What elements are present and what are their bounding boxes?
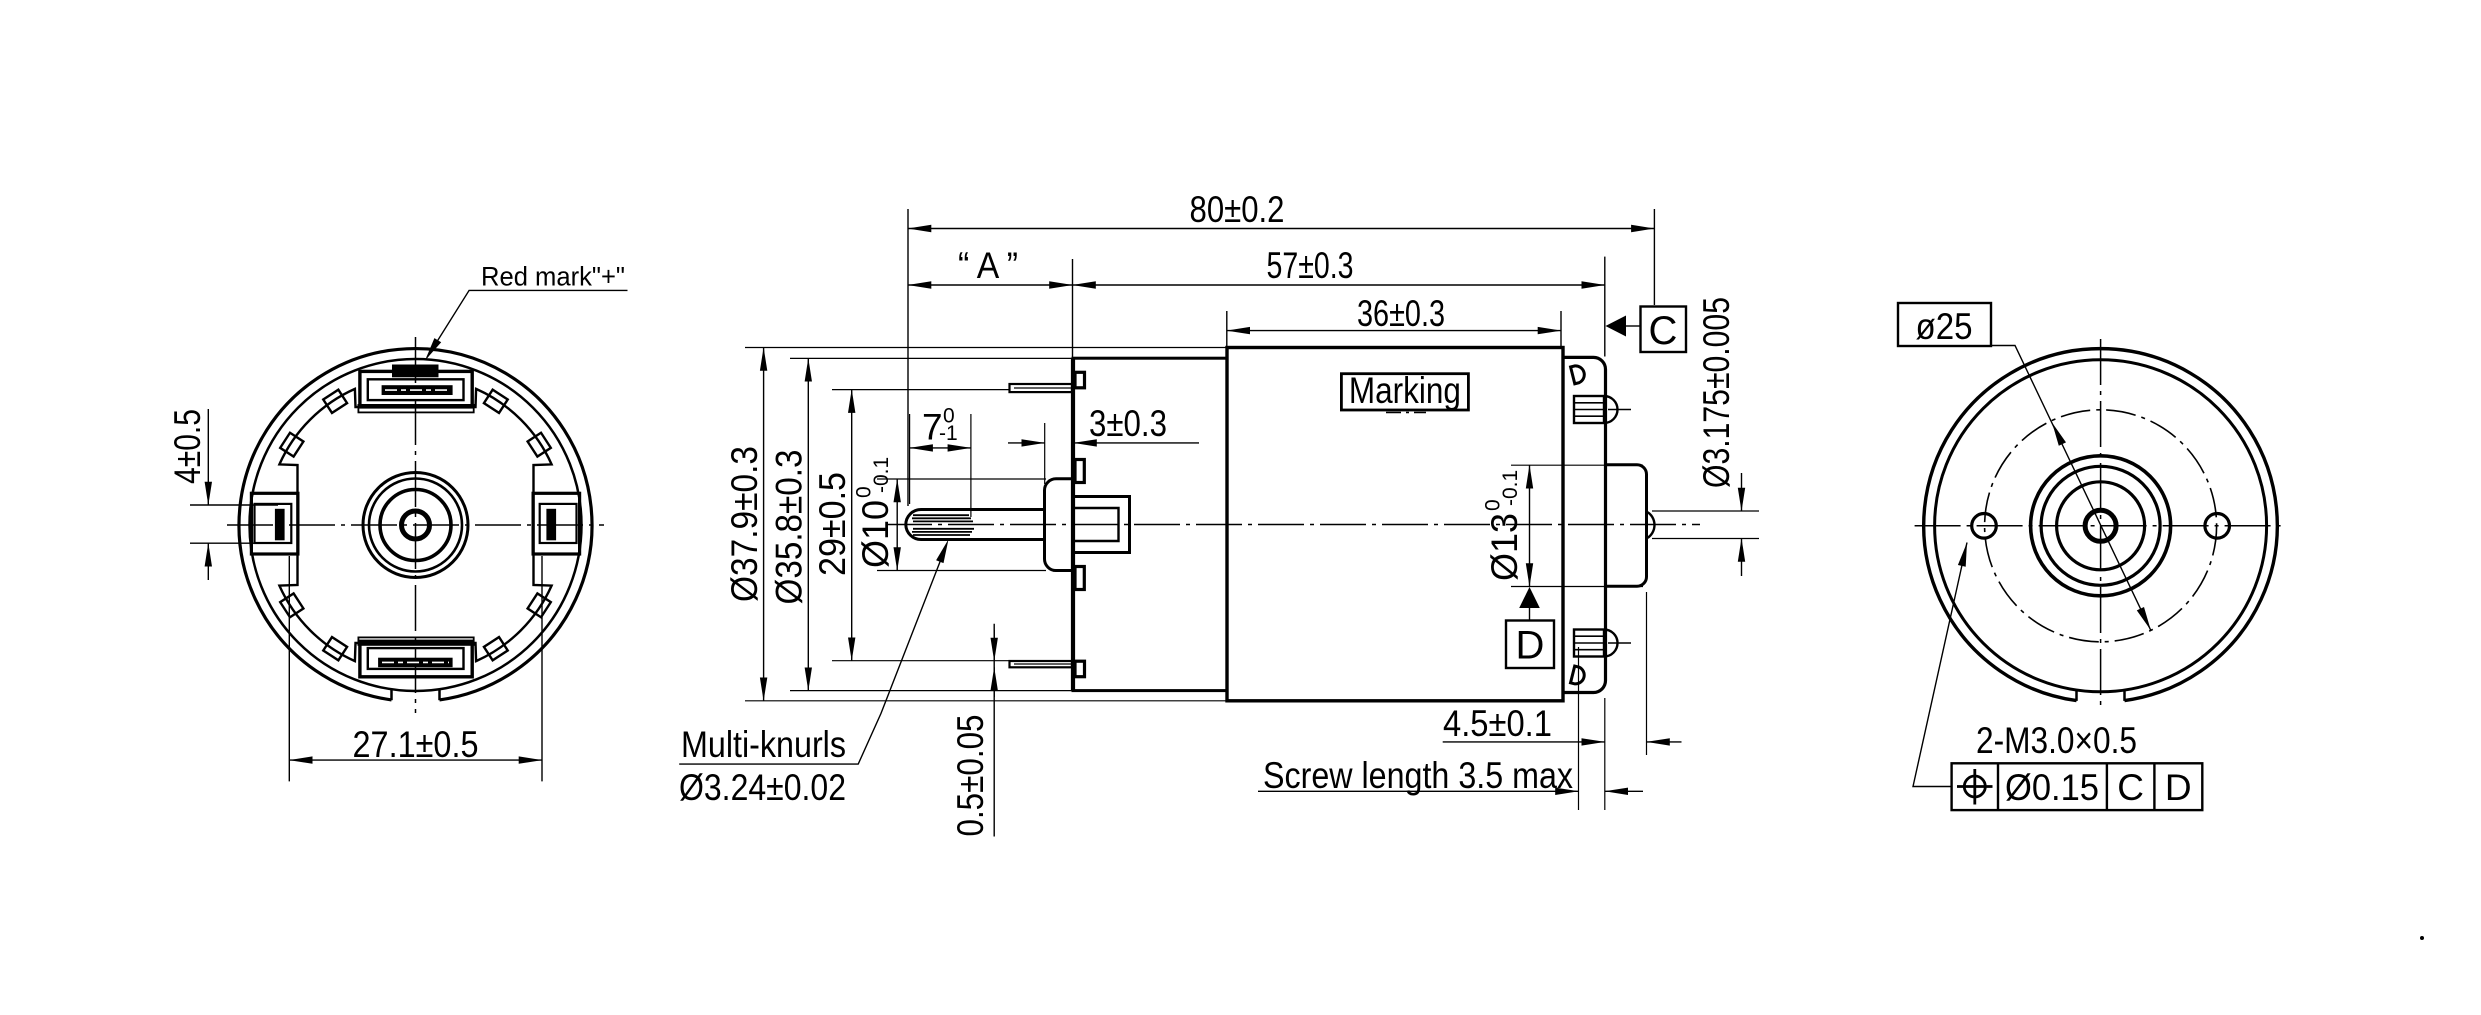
dim A / 57 ext lines — [1072, 259, 1074, 357]
rim ear 213deg — [280, 593, 303, 617]
Ø25 upper arrowhead — [2052, 423, 2066, 446]
top connector outer — [360, 371, 472, 407]
datum D stem — [1529, 608, 1531, 620]
dim 3±0.3 ext line — [1044, 423, 1046, 484]
rim ear 327deg — [528, 593, 551, 617]
screw bottom head — [1604, 630, 1618, 657]
screw hole right M3 — [2205, 514, 2230, 539]
dim 7 ext lines — [909, 414, 911, 504]
rim gap step right — [438, 689, 441, 700]
multi-knurls arrowhead — [936, 539, 948, 563]
rim gap step right — [2123, 690, 2126, 701]
end bell vent bottom — [1571, 666, 1587, 686]
center shaft hole — [402, 511, 430, 539]
dim Ø13 ext lines — [1511, 464, 1643, 466]
dim 36±0.3 line — [1227, 330, 1561, 332]
rear shaft stub — [1647, 512, 1655, 539]
screw bottom body — [1574, 630, 1604, 657]
centerline — [886, 524, 1700, 526]
dim Ø37.9 line — [763, 348, 765, 701]
dim Ø3.175 ext lines — [1652, 510, 1759, 512]
dim A line — [908, 284, 1073, 286]
output boss circle 3 — [2057, 482, 2145, 570]
bottom connector outer — [360, 641, 472, 677]
bearing boss — [1045, 479, 1074, 571]
top connector inner — [368, 379, 464, 400]
plate tab upper middle — [1075, 460, 1084, 483]
marking centerline tick — [1386, 412, 1426, 414]
bolt circle Ø25 dash-dot — [1985, 410, 2217, 642]
gear bracket inner — [1073, 508, 1119, 541]
svg-text:Multi-knurls: Multi-knurls — [681, 724, 846, 765]
end bell vent top — [1571, 364, 1587, 384]
rim ear 237deg — [323, 637, 347, 660]
centerline horizontal — [1915, 525, 2286, 527]
plate tab bottom — [1075, 661, 1085, 677]
dim 36±0.3 ext lines — [1226, 311, 1228, 347]
dim Ø35.8 line — [807, 358, 809, 690]
rim ear 33deg — [528, 433, 551, 457]
left terminal outer — [251, 493, 298, 554]
fcf leader arrowhead — [1958, 543, 1967, 567]
rim gap step left — [2075, 690, 2078, 701]
dim Ø10 line — [896, 479, 898, 571]
rim gap step left — [390, 689, 393, 700]
gearbox face plate edge — [1071, 358, 1075, 690]
svg-text:Ø0.15: Ø0.15 — [2005, 767, 2099, 808]
position symbol — [1964, 776, 1985, 797]
svg-text:Ø10: Ø10 — [855, 500, 896, 568]
svg-text:D: D — [2165, 767, 2192, 808]
screw length dim line and arrows — [1258, 790, 1579, 792]
svg-text:Ø37.9±0.3: Ø37.9±0.3 — [724, 446, 765, 602]
end cap inner rim circle — [250, 359, 582, 691]
marking box — [1341, 374, 1468, 410]
dim Ø3.175 arrows — [1741, 473, 1743, 511]
multi-knurls underline and leader — [679, 551, 944, 764]
Ø25 lower arrowhead — [2137, 607, 2151, 630]
rim ear 57deg — [484, 390, 508, 413]
screw top body — [1574, 396, 1604, 423]
dim Ø37.9 ext lines — [745, 347, 1227, 349]
dim 0.5±0.05 arrows — [993, 630, 995, 661]
face outer circle (with bottom gap) — [1924, 349, 2278, 701]
dim Ø35.8 ext lines — [790, 357, 1073, 359]
right terminal slot — [546, 509, 556, 541]
screw top head — [1604, 396, 1618, 423]
center bearing boss circle 1 — [363, 473, 468, 578]
svg-text:4.5±0.1: 4.5±0.1 — [1443, 703, 1552, 744]
brush card outline — [279, 389, 551, 661]
dimension 4±0.5 arrows — [207, 409, 209, 505]
top connector slot dash — [385, 389, 449, 391]
rim ear 147deg — [280, 433, 303, 457]
left terminal slot — [275, 509, 285, 541]
motor can body — [1227, 348, 1563, 701]
rim ear 123deg — [323, 390, 347, 413]
dim 80±0.2 line — [908, 228, 1654, 230]
bottom connector slot — [378, 658, 453, 668]
svg-text:29±0.5: 29±0.5 — [812, 472, 853, 576]
dim 0.5±0.05 line — [993, 624, 995, 837]
rim ear 303deg — [484, 637, 508, 660]
top connector flange — [358, 405, 473, 413]
feature control frame box — [1952, 763, 2203, 810]
svg-text:-0.1: -0.1 — [1499, 470, 1522, 506]
top connector slot — [382, 385, 453, 395]
center bearing boss circle 3 — [380, 490, 451, 561]
knurl lines lower — [913, 528, 974, 530]
svg-text:-0.1: -0.1 — [870, 457, 893, 493]
svg-text:0.5±0.05: 0.5±0.05 — [950, 715, 991, 837]
dim 80±0.2 ext lines — [907, 209, 909, 506]
datum C box — [1641, 307, 1687, 353]
terminal top — [1010, 384, 1073, 392]
dimension 4±0.5 extension lines — [190, 504, 278, 506]
dim 29±0.5 line — [851, 390, 853, 661]
dim 29±0.5 ext lines — [832, 389, 1009, 391]
plate tab top — [1075, 372, 1085, 388]
label Ø25 box — [1898, 303, 1991, 346]
left terminal inner — [255, 504, 292, 543]
datum C triangle — [1606, 316, 1627, 337]
svg-text:27.1±0.5: 27.1±0.5 — [353, 724, 479, 765]
svg-text:“ A ”: “ A ” — [958, 245, 1018, 286]
fcf leader — [1913, 543, 1967, 787]
svg-text:D: D — [1516, 624, 1545, 668]
svg-text:C: C — [2117, 767, 2144, 808]
dim Ø13 line — [1529, 465, 1531, 586]
end bell — [1563, 357, 1606, 692]
bottom connector inner — [368, 648, 464, 669]
svg-text:C: C — [1649, 309, 1678, 353]
center bearing boss circle 2 — [369, 479, 462, 572]
svg-text:Marking: Marking — [1349, 370, 1461, 411]
datum C stem — [1626, 325, 1641, 327]
bottom connector slot dash — [382, 661, 449, 663]
svg-text:80±0.2: 80±0.2 — [1190, 189, 1285, 230]
dim Ø10 ext lines — [877, 478, 1046, 480]
dimension 27.1±0.5 extension lines — [288, 556, 290, 781]
svg-text:Screw length 3.5 max: Screw length 3.5 max — [1263, 755, 1573, 796]
bottom connector flange — [358, 637, 473, 645]
svg-text:3±0.3: 3±0.3 — [1089, 403, 1167, 444]
screw hole left M3 — [1972, 514, 1997, 539]
face inner circle — [1935, 360, 2267, 692]
svg-text:Ø35.8±0.3: Ø35.8±0.3 — [769, 450, 810, 605]
page dot — [2420, 936, 2424, 940]
red mark leader — [427, 290, 628, 357]
centerline vertical — [2100, 339, 2102, 711]
knurl lines upper — [913, 514, 969, 516]
svg-text:Ø3.175±0.005: Ø3.175±0.005 — [1696, 297, 1737, 488]
svg-text:4±0.5: 4±0.5 — [167, 409, 208, 484]
centerline vertical — [415, 337, 417, 713]
svg-text:36±0.3: 36±0.3 — [1357, 293, 1445, 334]
red mark leader arrowhead — [425, 338, 441, 360]
svg-text:Red mark"+": Red mark"+" — [481, 262, 625, 292]
dim 7 line — [910, 447, 971, 449]
right terminal inner — [540, 504, 577, 543]
end cap outer circle (with bottom gap) — [239, 349, 592, 700]
dim 3±0.3 arrows — [1008, 442, 1045, 444]
plate tab lower middle — [1075, 567, 1084, 590]
datum D box — [1506, 621, 1554, 669]
right terminal outer — [533, 493, 580, 554]
svg-text:2-M3.0×0.5: 2-M3.0×0.5 — [1976, 720, 2137, 761]
output boss circle 2 — [2041, 466, 2160, 585]
svg-text:Ø13: Ø13 — [1484, 513, 1525, 581]
terminal bottom — [1010, 661, 1073, 667]
output shaft hole — [2085, 510, 2116, 541]
red mark bar — [392, 365, 439, 378]
rear bearing boss — [1606, 465, 1647, 586]
svg-text:-1: -1 — [939, 422, 958, 445]
dimension 27.1±0.5 line — [289, 759, 542, 761]
datum D triangle — [1519, 587, 1540, 608]
gearbox body — [1073, 358, 1227, 690]
centerline horizontal — [227, 524, 604, 526]
gear bracket outer — [1073, 497, 1130, 553]
dim 4.5±0.1 ext lines — [1578, 647, 1580, 810]
dim 57±0.3 line — [1073, 284, 1605, 286]
svg-text:ø25: ø25 — [1916, 306, 1973, 347]
output boss circle 1 — [2031, 456, 2171, 596]
dim 4.5±0.1 line and arrows — [1443, 741, 1605, 743]
Ø25 leader line — [1991, 346, 2151, 631]
svg-text:Ø3.24±0.02: Ø3.24±0.02 — [679, 767, 846, 808]
front shaft — [906, 510, 1045, 540]
svg-text:57±0.3: 57±0.3 — [1267, 245, 1354, 286]
